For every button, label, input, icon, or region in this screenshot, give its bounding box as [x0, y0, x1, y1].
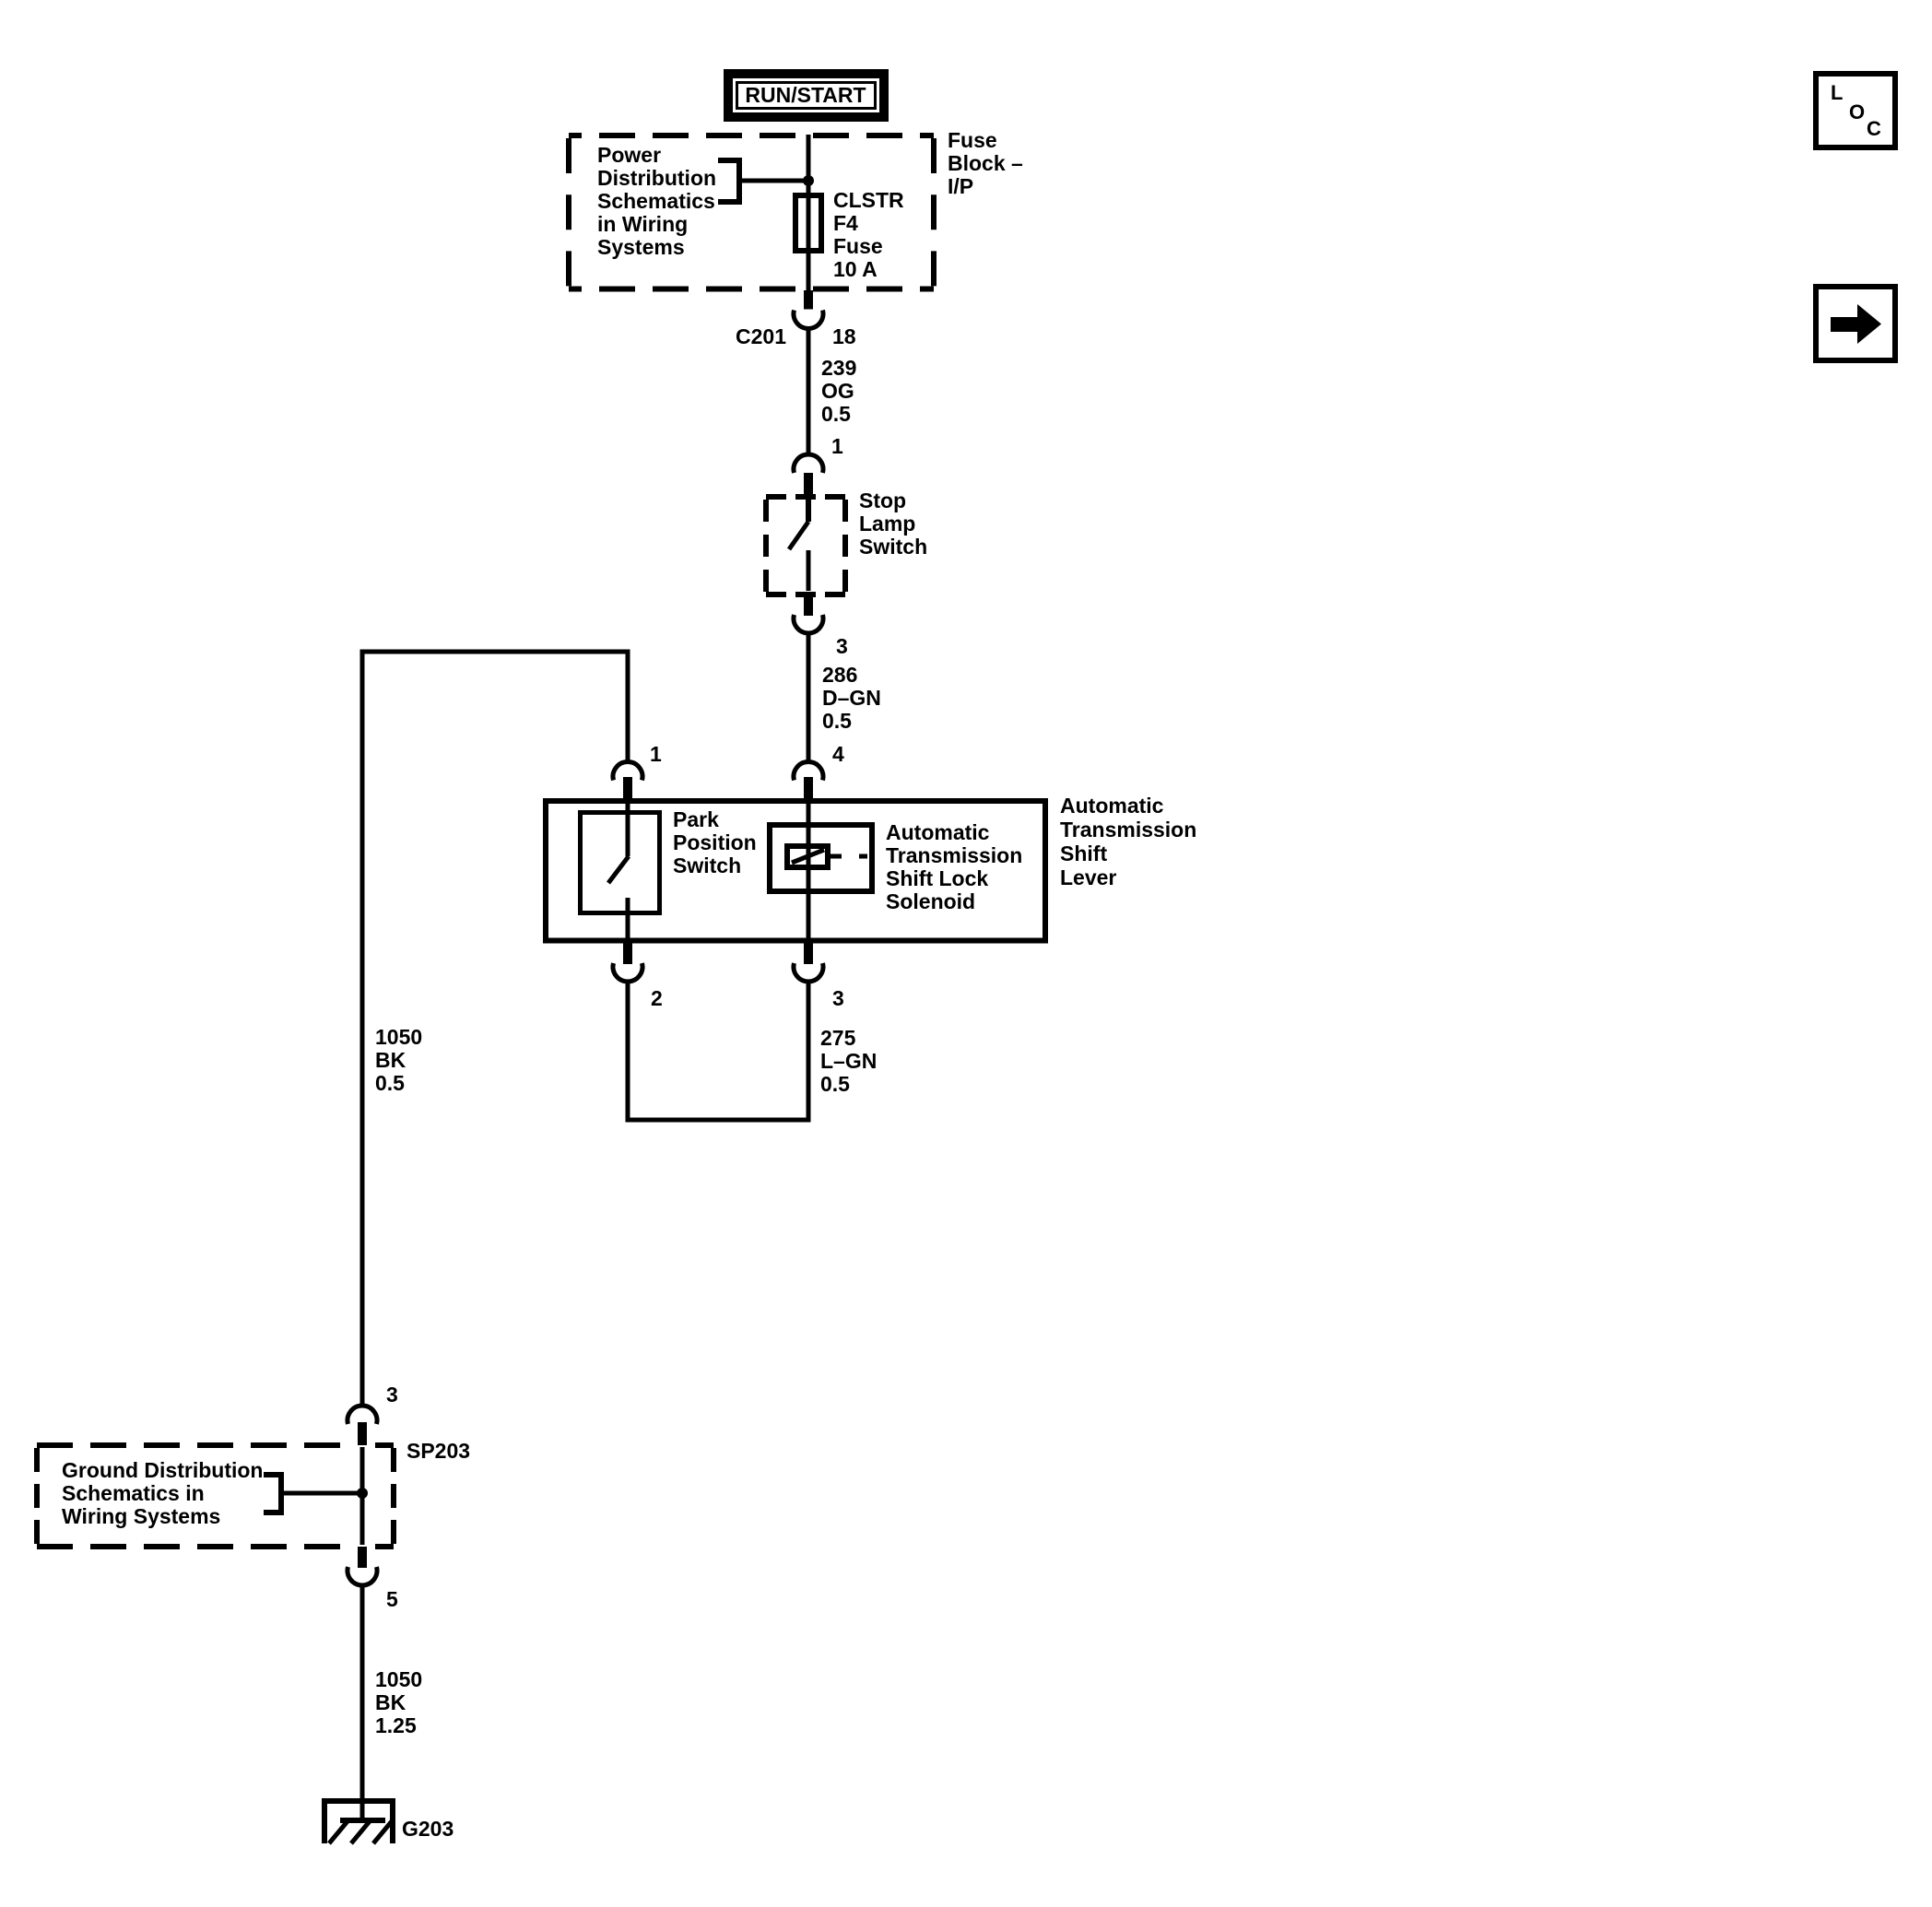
wire through SP203 splice — [360, 1447, 365, 1545]
connector pin4 stub — [804, 777, 813, 798]
label Fuse Block - I/P — [948, 129, 1023, 198]
connector C201 cup — [794, 311, 823, 329]
label pin 2 — [651, 987, 663, 1010]
wire from park switch branch: left riser, top run, pin1 drop — [362, 652, 628, 1406]
solenoid coil box — [787, 846, 828, 867]
connector pin2 cup — [613, 963, 642, 982]
junction dot at fuse tap — [803, 175, 814, 186]
wire from fuse block top through fuse to C201 stub — [807, 135, 811, 291]
connector C201 stub — [804, 290, 813, 310]
connector pin3 cup below stop lamp switch — [794, 615, 823, 633]
power symbol RUN/START outer box — [728, 74, 884, 117]
ground G203 — [322, 1801, 395, 1843]
label wire 286 D-GN 0.5 — [822, 664, 881, 733]
label pin 1 park position switch — [650, 743, 662, 766]
wire 1050 BK to ground — [360, 1585, 365, 1820]
label pin 4 — [832, 743, 844, 766]
bracket for Power Distribution reference — [718, 158, 739, 205]
connector pin3 stub at SP203 — [358, 1422, 367, 1445]
label RUN/START — [728, 84, 883, 107]
label SP203 — [406, 1440, 470, 1463]
label pin 18 — [832, 325, 856, 348]
label wire 1050 BK 1.25 — [375, 1668, 422, 1737]
bracket for Ground Distribution reference — [264, 1472, 281, 1515]
label wire 1050 BK 0.5 — [375, 1026, 422, 1095]
Fuse Block I/P dashed box — [569, 135, 934, 289]
label pin 3 stop lamp switch — [836, 635, 848, 658]
Automatic Transmission Shift Lever box — [546, 801, 1045, 941]
SP203 bottom stub — [358, 1547, 367, 1568]
connector pin1 stub — [804, 473, 813, 499]
label CLSTR F4 Fuse 10 A — [833, 189, 904, 281]
wire horizontal from power distribution bracket to junction — [739, 179, 808, 183]
label pin 3 shift lever — [832, 987, 844, 1010]
solenoid coil diagonal — [792, 850, 824, 863]
label wire 275 L-GN 0.5 — [820, 1027, 877, 1096]
connector pin1 stub at park position switch — [623, 777, 632, 798]
SP203 dashed box — [37, 1445, 394, 1547]
solenoid link dash 1 — [831, 854, 842, 859]
park position switch bottom contact wire — [626, 898, 630, 942]
park position switch inner box — [581, 813, 660, 913]
Stop Lamp Switch dashed box — [766, 497, 845, 594]
power symbol RUN/START inner box — [737, 83, 876, 109]
junction dot SP203 — [357, 1488, 368, 1499]
park position switch blade — [608, 856, 629, 883]
label Power Distribution Schematics in Wiring Systems — [597, 144, 716, 259]
wire 286 D-GN from stop lamp switch to shift lever — [807, 633, 811, 762]
connector pin1 cap at park position switch — [613, 762, 642, 781]
arrow legend box — [1816, 287, 1895, 360]
connector pin3 cup — [794, 963, 823, 982]
label Park Position Switch — [673, 808, 757, 877]
wire 275 L-GN U loop joining pin2 and pin3 — [628, 982, 808, 1120]
connector pin3 cap at SP203 — [348, 1406, 377, 1424]
stop lamp switch blade — [789, 522, 808, 549]
connector pin3 stub below shift lever box — [804, 942, 813, 964]
arrow glyph — [1831, 304, 1881, 344]
label pin 3 SP203 — [386, 1383, 398, 1407]
stop lamp switch bottom stub — [804, 596, 813, 616]
label wire 239 OG 0.5 — [821, 357, 856, 426]
park position switch top contact wire — [626, 798, 630, 856]
label LOC letters — [1831, 81, 1843, 104]
connector pin5 cup — [348, 1567, 377, 1585]
connector pin1 cap at stop lamp switch — [794, 454, 823, 473]
connector pin4 cap — [794, 762, 823, 781]
stop lamp switch bottom contact wire — [807, 550, 811, 591]
label Automatic Transmission Shift Lock Solenoid — [886, 821, 1022, 913]
stop lamp switch top contact wire — [806, 499, 811, 522]
solenoid wire through shift lock solenoid — [807, 798, 811, 942]
connector pin2 stub below shift lever box — [623, 942, 632, 964]
automatic transmission shift lock solenoid box — [770, 825, 872, 891]
label pin 5 — [386, 1588, 398, 1611]
fuse CLSTR F4 10A — [795, 195, 821, 251]
LOC legend box — [1816, 74, 1895, 147]
wire 239 OG from C201 to stop lamp switch — [807, 328, 811, 454]
label Stop Lamp Switch — [859, 489, 927, 559]
label C201 — [736, 325, 786, 348]
label pin 1 stop lamp switch — [831, 435, 843, 458]
label G203 — [402, 1818, 454, 1841]
solenoid link dash 2 — [859, 854, 867, 859]
label Automatic Transmission Shift Lever — [1060, 794, 1196, 889]
wire from ground bracket to splice — [281, 1491, 362, 1496]
label Ground Distribution Schematics in Wiring Systems — [62, 1459, 263, 1528]
